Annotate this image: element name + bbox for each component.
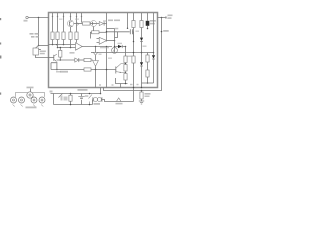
label jack	[116, 103, 123, 105]
node supply mid	[161, 31, 163, 33]
resistor R9	[84, 58, 91, 61]
resistor R15	[132, 56, 135, 63]
node rail 4	[70, 16, 71, 17]
battery rail y93	[51, 93, 101, 95]
node D2 tap	[114, 46, 116, 48]
wire emitter drop	[56, 62, 58, 70]
label right top line2	[150, 23, 155, 25]
indicator M1	[112, 47, 118, 53]
bottom rail y104	[54, 94, 93, 105]
wire x153 top	[153, 13, 155, 55]
node C1 top	[38, 45, 40, 47]
wire emitter corner	[51, 63, 56, 70]
wire T2 down	[93, 27, 95, 31]
label C1 value line1	[30, 33, 34, 35]
long signal wire y46.5	[82, 46, 112, 48]
op-amp A2	[99, 37, 106, 44]
scan mark edge 3	[0, 56, 1, 59]
wire supply out	[158, 17, 167, 19]
label speck a	[99, 54, 102, 55]
legend can 4	[39, 97, 45, 103]
terminal label left	[50, 91, 53, 93]
wire C1 bottom to box	[36, 55, 49, 58]
wire x141 bottom	[141, 66, 143, 88]
resistor R6	[83, 22, 91, 25]
resistor R14	[132, 21, 135, 28]
wire R8 top	[59, 48, 61, 51]
outer supply wire	[104, 18, 162, 91]
node x133 b	[133, 52, 135, 54]
node S2 top	[89, 93, 91, 95]
wire R6 to T2	[90, 23, 97, 25]
wire R17-R18	[147, 62, 149, 70]
pin label b	[137, 84, 139, 85]
label speck e	[143, 46, 147, 47]
label battery v	[85, 95, 89, 97]
switch S2	[89, 95, 93, 99]
node x133 a	[133, 41, 135, 43]
wire earpiece to jack	[102, 100, 134, 102]
node x141 border	[141, 87, 143, 89]
trimmer TP1	[93, 53, 97, 56]
feedback resistor R7	[92, 31, 100, 34]
label speck T2	[103, 20, 107, 21]
node battery rail	[100, 93, 102, 95]
wire into box y45	[39, 45, 49, 47]
long wire y69	[51, 69, 116, 71]
node gnd	[95, 69, 97, 71]
label 9V	[163, 30, 169, 32]
wire R18 bottom	[147, 77, 149, 83]
wire A2 inputs	[97, 39, 100, 43]
resistor R1	[51, 32, 54, 40]
wire comp down	[95, 55, 97, 60]
node in1	[52, 44, 54, 46]
diode D4	[140, 62, 143, 66]
resistor R18	[146, 70, 149, 77]
node x141	[141, 52, 143, 54]
label supply line1	[168, 15, 173, 17]
wire input to box	[28, 17, 48, 19]
wire cap bus down	[133, 32, 135, 42]
jack plug P1	[117, 98, 121, 101]
wire rail stub 2	[57, 13, 59, 32]
scan mark edge 4	[0, 93, 1, 95]
wire A2 output	[107, 40, 115, 42]
capacitor C2	[130, 29, 132, 34]
wire input drop	[38, 18, 40, 46]
wire fb right	[99, 31, 107, 33]
node input junction	[38, 17, 40, 19]
node rail 6	[81, 16, 82, 17]
label speck d	[128, 56, 133, 57]
wire C3 top	[147, 13, 149, 21]
wire R8 bottom	[59, 57, 61, 60]
ground G2	[139, 101, 144, 104]
node R20 top	[141, 90, 143, 92]
wire x114 upper	[114, 29, 116, 41]
resistor R5	[75, 32, 78, 40]
label C1 value line2b	[36, 36, 40, 38]
label 4n7	[60, 71, 68, 73]
label R19	[64, 97, 68, 101]
label battery	[78, 89, 88, 91]
wire A1 input lower	[58, 47, 76, 49]
label supply line2	[168, 17, 172, 19]
label top center b	[114, 20, 120, 22]
label J1	[24, 20, 28, 22]
wire x141 top	[141, 13, 143, 21]
diode D1	[97, 22, 107, 26]
node D2 out	[125, 46, 127, 48]
node C3	[147, 28, 149, 30]
pin label a	[130, 84, 133, 85]
wire R20 top	[141, 91, 143, 93]
diode D5	[152, 55, 155, 59]
long wire y60	[57, 59, 75, 61]
node R8 top	[60, 47, 62, 49]
node x107 top	[106, 46, 108, 48]
resistor R20	[140, 92, 143, 99]
label earpiece	[94, 103, 101, 105]
wire stub x127	[127, 13, 129, 28]
label C1 line2	[40, 53, 45, 55]
wire y83 link	[142, 82, 154, 84]
enclosure box	[49, 13, 158, 88]
node supply	[161, 17, 163, 19]
label speck g	[108, 58, 112, 59]
label R20 line1	[145, 93, 151, 95]
legend can T top	[27, 89, 33, 99]
wire corner to x114	[107, 28, 115, 30]
resistor R8	[59, 50, 62, 57]
switch S1	[59, 94, 63, 98]
wire x107 down	[106, 47, 108, 88]
label S1 vertical	[61, 96, 63, 101]
wire T1 row	[74, 23, 83, 25]
resistor R11	[124, 56, 127, 63]
wire T1 to R4	[70, 27, 72, 32]
pin label 7	[112, 84, 114, 85]
wire T5 base	[115, 70, 117, 71]
wire rail stub 1	[52, 13, 54, 32]
label IC1	[70, 52, 75, 54]
node y60	[60, 59, 62, 61]
wire y52 run	[99, 52, 142, 54]
wire gnd down	[95, 66, 97, 69]
wire gnd to border	[95, 70, 97, 88]
node A2 out	[114, 40, 116, 42]
wire A1 input upper	[49, 44, 76, 46]
wire vertical bus B	[106, 13, 108, 42]
battery BT1	[78, 94, 84, 105]
node rail 3	[63, 16, 64, 17]
node emitter L2	[56, 69, 58, 71]
node stack 2	[125, 72, 126, 73]
wire R9 right	[91, 59, 93, 61]
transistor T2	[91, 21, 97, 27]
label C2	[115, 28, 119, 30]
wire rail stub 6	[81, 13, 83, 23]
label speck f	[136, 31, 140, 32]
wire x141 mid	[141, 28, 143, 38]
label mid	[100, 47, 109, 49]
resistor R2	[56, 32, 59, 40]
wire resistor bottoms	[53, 40, 77, 48]
capacitor C3 dark	[146, 21, 150, 26]
legend can 2	[19, 97, 25, 103]
wire branch to A2 out	[115, 32, 118, 38]
label legend top	[27, 87, 34, 89]
legend bracket drops	[16, 92, 45, 97]
resistor R19	[69, 95, 72, 101]
wire y52 ext	[148, 52, 154, 54]
wire bracket drop	[120, 84, 122, 88]
terminal supply x-mark	[165, 16, 167, 18]
transistor T5	[116, 64, 126, 74]
resistor R12	[124, 65, 127, 72]
node R18	[147, 82, 149, 84]
resistor R13	[124, 74, 127, 81]
wire fb left	[91, 32, 92, 38]
wire A2 out down	[114, 41, 116, 53]
wire R19 top	[70, 94, 72, 96]
resistor R3	[62, 32, 65, 40]
wire rail stub 3	[63, 13, 65, 32]
wire R19 bottom	[70, 101, 72, 104]
wire C1 top link	[36, 46, 39, 49]
node x153	[153, 52, 155, 54]
capacitor C1 polarized	[33, 48, 39, 55]
label speck i	[59, 19, 63, 20]
resistor R10	[84, 68, 91, 71]
label speck h	[75, 19, 79, 20]
node fb tap	[106, 31, 108, 33]
label speck c	[118, 43, 123, 44]
legend hatch marks	[13, 105, 44, 107]
label right top line1	[150, 20, 156, 22]
wire corner into R17	[142, 53, 148, 56]
wire rail stub 5	[76, 13, 78, 32]
wire bottom bracket	[116, 78, 128, 84]
node bracket	[125, 83, 127, 85]
wire stack top	[125, 47, 127, 57]
resistor R17	[146, 55, 149, 62]
wire S2 bottom	[89, 102, 91, 105]
node R19 top	[70, 93, 72, 95]
wire C3 bottom	[147, 26, 149, 29]
node R19 bottom	[70, 104, 72, 106]
diode arrow T1 base	[77, 22, 79, 25]
op-amp A1	[76, 43, 83, 51]
legend can 1	[11, 97, 17, 103]
wire cap C2 right	[133, 31, 134, 33]
label speck b	[56, 71, 61, 73]
wire x133 mid	[133, 28, 135, 57]
wire jack to box	[133, 88, 135, 102]
scan mark edge 1	[0, 18, 1, 20]
node x127	[127, 28, 128, 29]
label R20 line2	[145, 96, 150, 98]
node rail 1	[52, 16, 53, 17]
resistor R4	[69, 32, 72, 40]
label C1 line1	[40, 51, 46, 53]
wire rail stub 4	[70, 13, 72, 20]
label C1 value line1b	[35, 33, 39, 35]
wire T4 base	[49, 57, 54, 59]
node jack top	[133, 87, 135, 89]
diode D2	[116, 45, 126, 48]
node rail 5	[76, 16, 77, 17]
node rail 2	[57, 16, 58, 17]
scan mark edge 2	[0, 43, 1, 45]
wire x133 bottom	[133, 63, 135, 88]
transistor T1	[67, 20, 73, 27]
wire stack bottom	[125, 80, 127, 84]
wire A1 out drop	[95, 47, 97, 53]
label legend bottom	[26, 107, 37, 109]
diode D6	[75, 58, 84, 62]
earpiece LS1	[93, 97, 102, 102]
wire comp top	[91, 52, 99, 54]
ground triangle	[93, 61, 99, 67]
resistor R16	[140, 21, 143, 28]
legend bracket	[16, 91, 45, 93]
wire x133 top	[133, 13, 135, 21]
wire earpiece left	[92, 100, 94, 105]
label C1 value line2	[31, 36, 35, 38]
label top center	[108, 20, 113, 22]
legend can 3	[31, 97, 37, 103]
transistor T4	[54, 54, 57, 61]
pot wiper arrow	[56, 44, 58, 46]
pin label 1	[99, 84, 101, 85]
node S2 bottom	[89, 104, 91, 106]
node A1 out	[95, 46, 97, 48]
wire box to battery rail	[100, 88, 102, 94]
capacitor C1 plus mark	[39, 49, 41, 51]
wire R20 bottom	[141, 99, 143, 101]
wire cap C2 left	[107, 31, 130, 33]
node in3	[57, 47, 59, 49]
node in2	[63, 44, 65, 46]
diode D3	[140, 38, 143, 42]
wire x153 bottom	[153, 59, 155, 83]
input terminal J1	[26, 16, 28, 18]
node in4	[70, 47, 72, 49]
node stack 1	[125, 63, 126, 64]
wire x141 mid2	[141, 41, 143, 62]
node x107 mid	[106, 69, 108, 71]
